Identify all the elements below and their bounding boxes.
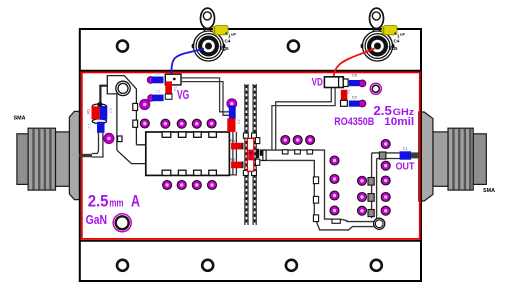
svg-text:C4: C4: [225, 38, 231, 43]
SMA connector J2 (right output): [419, 112, 487, 201]
via column x=334.5: [330, 156, 339, 215]
output trace (drain): [260, 150, 374, 230]
banana jack Vgs terminal: [192, 8, 226, 61]
wire Vds (red): [333, 49, 374, 82]
flange pad bottom 4: [209, 170, 217, 175]
svg-text:uF: uF: [400, 32, 405, 37]
solder pad on right bias bar 2: [368, 194, 374, 202]
capacitor C4 (Vgs, 1uF yellow): [213, 25, 228, 34]
via (double ring) above flange left: [140, 100, 150, 110]
svg-text:SMA: SMA: [483, 188, 495, 194]
svg-text:VD: VD: [312, 77, 323, 89]
SMA pin (right): [411, 152, 420, 158]
svg-text:C2: C2: [352, 94, 358, 99]
transistor flange pocket: [146, 132, 230, 175]
pad on output trace 2: [295, 150, 301, 154]
board outline: [80, 29, 421, 281]
via row below flange: [163, 181, 217, 190]
solder bead below R1: [92, 119, 106, 124]
svg-text:Vgs: Vgs: [220, 46, 229, 52]
solder bead top of R1: [92, 104, 106, 109]
capacitor C2 (VD network): [341, 100, 348, 106]
pad on output trace 3: [307, 150, 313, 154]
resistor R4: [231, 143, 243, 150]
gray pad right of corner: [379, 152, 386, 159]
resistor R2: [165, 81, 172, 94]
svg-text:VG: VG: [177, 87, 189, 102]
pad on gate trace edge 1: [133, 103, 138, 110]
via/pad circle (bias U corner): [374, 218, 385, 229]
pad on output trace 1: [282, 150, 288, 154]
svg-text:R2: R2: [237, 119, 241, 124]
pad right of slot (bottom): [255, 159, 259, 165]
screw hole in gate polygon: [116, 81, 130, 95]
flange pad top 1: [162, 132, 171, 137]
board slot edge (left dashed strip): [245, 84, 248, 225]
via (double ring) left of trace: [104, 133, 114, 143]
slot flare top-right: [252, 133, 257, 138]
pad right of slot (top): [255, 138, 259, 144]
pad on left bias bar 1: [313, 177, 318, 184]
fiducial circle by GaN: [113, 214, 131, 232]
capacitor C1 (input): [97, 122, 105, 133]
svg-text:C3: C3: [224, 110, 228, 115]
svg-text:R5: R5: [230, 157, 236, 162]
resistor R3 (gate bias): [227, 119, 235, 132]
wire Vgs (blue): [171, 49, 204, 78]
mounting hole bottom 4: [371, 260, 382, 271]
SMA connector J1 (left input): [17, 111, 80, 199]
resistor (VD network): [341, 90, 348, 101]
via column x=362: [358, 176, 367, 215]
via row above flange: [140, 119, 216, 128]
mounting hole bottom 1: [117, 260, 128, 271]
flange pad top 3: [194, 132, 202, 137]
VG bias trace: [181, 78, 229, 115]
svg-text:Vds: Vds: [389, 46, 398, 52]
black pad at drain output: [260, 150, 265, 155]
svg-text:C4: C4: [394, 38, 400, 43]
svg-text:C3: C3: [108, 107, 113, 113]
mounting hole top-left: [117, 41, 128, 52]
svg-text:R1: R1: [86, 108, 91, 114]
bridge pad on output trace: [263, 150, 266, 160]
flange pad bottom 3: [194, 170, 202, 175]
transistor Q1 (GaN DUT): [247, 138, 253, 171]
board inner top edge: [80, 70, 421, 72]
capacitor C1 (VG network): [147, 77, 154, 84]
svg-text:R2: R2: [347, 89, 351, 94]
capacitor C3 (gate bias): [229, 106, 236, 119]
svg-text:C1: C1: [155, 72, 160, 76]
SMA pin (left): [79, 154, 92, 157]
svg-text:uF: uF: [231, 32, 236, 37]
board inner bottom edge: [80, 240, 421, 242]
node at R1 top: [97, 102, 102, 107]
capacitor C5 (VD network): [343, 79, 348, 87]
mounting hole top-center: [288, 41, 299, 52]
resistor R5: [231, 162, 243, 169]
PCB edge (red): [82, 72, 420, 239]
wire stub to R1: [100, 86, 107, 104]
drain strip below R3: [230, 132, 237, 175]
banana jack Vds terminal: [361, 8, 395, 61]
slot flare top-left: [243, 133, 248, 138]
mounting hole bottom 3: [286, 260, 297, 271]
via row above output trace: [281, 136, 315, 145]
svg-text:SMA: SMA: [14, 116, 26, 122]
svg-text:C5: C5: [352, 72, 358, 77]
flange pad top 4: [209, 132, 217, 137]
svg-text:C2: C2: [156, 90, 161, 94]
board slot edge (right dashed strip): [253, 84, 256, 225]
drain lead black pad: [256, 149, 259, 158]
capacitor C2 (VG network): [148, 95, 155, 102]
inductor L1 (VG feed): [165, 74, 181, 85]
pad on gate trace edge 2: [133, 120, 138, 127]
svg-text:mm: mm: [109, 198, 123, 210]
capacitor C3 (input): [100, 106, 108, 120]
svg-text:2.5: 2.5: [88, 192, 109, 211]
resistor R1: [92, 106, 100, 119]
svg-text:RO4350B: RO4350B: [334, 116, 374, 128]
via column x=385.7: [381, 140, 390, 216]
solder pad on right bias bar 3: [368, 210, 374, 217]
gate copper polygon: [107, 76, 146, 164]
svg-text:C1: C1: [87, 123, 92, 129]
VD feed trace: [272, 88, 335, 150]
solder pad on right bias bar 1: [368, 178, 374, 186]
right bias bar (to OUT): [372, 153, 400, 219]
flange pad bottom 2: [178, 170, 186, 175]
input trace from SMA: [92, 133, 103, 157]
mounting hole bottom 2: [202, 260, 213, 271]
capacitor C4 (Vds, 1uF yellow): [382, 25, 397, 34]
flange pad top 2: [178, 132, 186, 137]
pad on left bias bar 3: [313, 215, 318, 222]
via (double ring) at C3 top: [227, 99, 237, 109]
svg-text:10mil: 10mil: [384, 116, 414, 128]
svg-text:OUT: OUT: [396, 162, 415, 173]
slot flare bottom-right: [252, 170, 257, 175]
svg-text:A: A: [131, 193, 140, 211]
capacitor C1 (output DC block): [400, 151, 411, 159]
svg-text:GaN: GaN: [86, 212, 108, 227]
via ring near 2.5GHz: [370, 83, 381, 94]
inductor/feedthru VD box: [324, 77, 343, 88]
slot flare bottom-left: [243, 170, 248, 175]
pad on left bias bar 2: [313, 196, 318, 203]
pad on gate trace edge 3: [118, 136, 123, 142]
pad on bottom bias bar: [332, 219, 340, 223]
flange pad bottom 1: [162, 170, 171, 175]
svg-text:R4: R4: [230, 138, 236, 143]
svg-text:C1: C1: [403, 146, 409, 151]
